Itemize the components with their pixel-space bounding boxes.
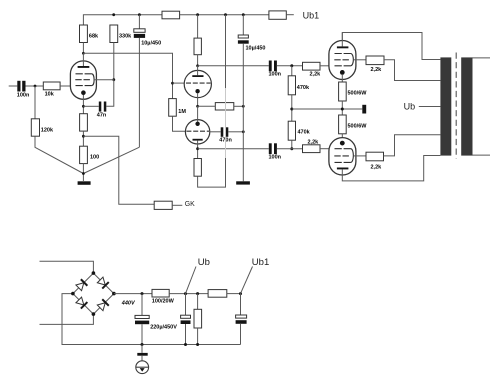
svg-text:47n: 47n: [97, 113, 107, 119]
resistor 2,2k upper grid: [303, 62, 321, 70]
svg-text:2,2k: 2,2k: [371, 165, 383, 171]
resistor 500/6W upper: [339, 82, 347, 101]
wire rail segment 2: [180, 14, 269, 16]
svg-text:470k: 470k: [298, 129, 311, 135]
tube V3 anode bar: [337, 46, 349, 48]
wire DC rail to R1: [114, 293, 152, 295]
svg-text:GK: GK: [185, 201, 195, 208]
tube V2a grid dashes: [186, 82, 211, 84]
tube V4 cathode dot: [340, 141, 345, 146]
wire R2 to node: [227, 293, 241, 295]
svg-text:Ub: Ub: [404, 102, 416, 112]
tube V4 envelope: [329, 138, 356, 175]
svg-text:440V: 440V: [121, 301, 136, 307]
svg-text:2,2k: 2,2k: [310, 71, 322, 77]
node lower coupling: [196, 147, 199, 150]
tube V4 anode bar: [337, 168, 349, 170]
wire to upper grid node: [277, 65, 303, 67]
wire 470n right lead: [228, 131, 243, 133]
node mid rail left: [290, 108, 293, 111]
ground stub 2 psu: [141, 356, 143, 361]
node tail junction: [196, 105, 199, 108]
node input: [34, 85, 37, 88]
tube V3 g1 dashes: [335, 65, 352, 67]
capacitor 100n input: [17, 81, 20, 92]
svg-text:10µ/450: 10µ/450: [141, 41, 161, 47]
resistor 330k: [110, 25, 118, 43]
wire tail resistor right lead: [234, 105, 244, 107]
SECTION-SPLITTER: [169, 15, 269, 187]
wire Ub pointer: [186, 267, 197, 294]
wire lower stopper to tube: [320, 148, 334, 150]
wire 10k to grid: [60, 85, 70, 87]
tube V2a envelope: [184, 70, 211, 97]
svg-text:220µ/450V: 220µ/450V: [150, 324, 177, 330]
wire R1 to node: [169, 293, 208, 295]
wire rail tap faint: [225, 15, 227, 88]
tube V4 g1 dashes: [335, 148, 352, 150]
tube V2b anode lead: [197, 106, 199, 121]
earth arrow: [140, 368, 145, 372]
svg-text:100n: 100n: [269, 154, 282, 160]
node star ground: [82, 172, 85, 175]
resistor splitter anode load: [194, 38, 201, 55]
wire rail to anode resistor: [197, 15, 199, 38]
ground bar input stage: [78, 181, 91, 185]
wire 120k to ground diagonal: [35, 136, 83, 173]
node bridge bottom: [92, 312, 96, 316]
wire 1M to lower grid: [173, 116, 186, 131]
node anode EF86: [82, 52, 85, 55]
node rail bleeder: [196, 292, 199, 295]
resistor 2,2k screen upper: [366, 56, 384, 65]
tube V1 grid2 dashes: [75, 79, 90, 81]
wire Ub1 supply rail: [83, 15, 162, 25]
node splitter grid: [171, 82, 174, 85]
tube V1 cathode hook: [92, 74, 94, 86]
wire to Ub1 label: [286, 14, 294, 16]
wire secondary top: [473, 57, 491, 59]
node 470n ground rail: [242, 130, 245, 133]
resistor 2,2k lower grid: [303, 145, 321, 153]
wire tail lower to riser: [198, 158, 226, 187]
wire screen to UL tap lower: [384, 135, 441, 156]
wire cap to input node: [26, 85, 44, 87]
bridge edge bottom-left: [73, 294, 94, 315]
tube V4 g3 dashes: [335, 161, 352, 163]
resistor GK: [154, 201, 172, 209]
wire cap1 ground drop: [138, 38, 140, 147]
wire GK feedback: [83, 136, 154, 204]
svg-text:500/6W: 500/6W: [348, 123, 368, 129]
node minus cap2: [184, 343, 187, 346]
wire 100 to ground: [82, 164, 84, 181]
tube V2a anode lead: [197, 66, 199, 75]
tube V3 g3 dashes: [335, 53, 352, 55]
ground bar psu: [137, 353, 147, 356]
wire V3 g2 lead: [353, 59, 366, 61]
wire anode resistor to node: [197, 55, 199, 66]
tube V2a anode bar: [192, 75, 203, 77]
svg-text:500/6W: 500/6W: [348, 91, 368, 97]
resistor cathode upper: [80, 114, 88, 131]
resistor bleeder: [197, 294, 199, 310]
node g2 junction: [112, 78, 115, 81]
tube V3 cathode hook: [351, 54, 354, 66]
node bridge top: [92, 271, 96, 275]
SECTION-OUTPUT: [269, 33, 491, 181]
wire mid rail: [292, 108, 363, 110]
SECTION-AMP: [9, 10, 319, 209]
resistor 500/6W lower: [339, 115, 347, 134]
tube V4 cathode hook: [351, 149, 354, 163]
diode D2: [97, 277, 109, 289]
transformer primary winding: [440, 57, 451, 155]
wire 470k lower to node: [291, 140, 293, 149]
wire V4 g2 lead: [353, 155, 366, 157]
terminal bar mid rail: [362, 105, 366, 114]
node rail cap2psu: [184, 292, 187, 295]
svg-text:100/20W: 100/20W: [152, 299, 175, 305]
capacitor 220u450V: [141, 294, 143, 316]
wire upper coupling: [198, 65, 269, 67]
ground stub psu: [141, 345, 143, 353]
wire g2 node down to 47n: [106, 80, 113, 107]
node rail-cap1: [138, 13, 141, 16]
node splitter anode: [196, 64, 199, 67]
resistor 10k: [43, 82, 60, 90]
svg-text:100n: 100n: [269, 72, 282, 78]
resistor tail horizontal: [215, 103, 234, 110]
node rail-cap2: [242, 13, 245, 16]
svg-text:2,2k: 2,2k: [371, 67, 383, 73]
bridge edge top-left: [73, 273, 94, 294]
tube V1 anode: [82, 53, 84, 66]
capacitor 47n: [99, 102, 102, 112]
tube V3 anode lead: [341, 33, 343, 47]
wire GK lead: [172, 204, 182, 206]
node upper grid: [290, 64, 293, 67]
wire 330k to g2 node: [113, 43, 115, 80]
SECTION-PSU: [40, 257, 270, 374]
earth circle: [136, 361, 149, 374]
tube V1 grid1 dashes: [76, 85, 93, 87]
capacitor psu 3: [240, 294, 242, 315]
resistor 1M: [169, 99, 177, 117]
resistor rail series 1: [162, 11, 180, 19]
wire grid stopper to tube: [320, 65, 334, 67]
capacitor psu 2: [185, 294, 187, 316]
svg-text:Ub1: Ub1: [252, 257, 269, 268]
wire Ub tap: [419, 106, 441, 108]
node rail Ub1: [239, 292, 242, 295]
resistor rail series 2: [269, 11, 286, 19]
svg-text:Ub1: Ub1: [303, 10, 320, 20]
wire secondary bottom: [473, 154, 491, 156]
tube V4 g2 dashes: [334, 155, 349, 157]
node rail-anode-resistor: [196, 13, 199, 16]
svg-text:Ub: Ub: [198, 257, 210, 268]
resistor 68k: [80, 25, 88, 43]
wire screen to UL tap upper: [384, 60, 440, 81]
tube V1 grid3 dashes: [76, 73, 93, 75]
bridge edge bottom-right: [93, 294, 114, 315]
resistor 100/20W: [152, 289, 169, 297]
node bridge left: [71, 292, 75, 296]
resistor 100: [80, 146, 88, 163]
node minus cap220: [141, 343, 144, 346]
wire cap2 ground drop: [242, 44, 244, 182]
wire 500 upper to mid rail: [341, 101, 343, 115]
svg-text:330k: 330k: [119, 34, 132, 40]
wire g2 lead: [94, 79, 114, 81]
tube V3 envelope: [329, 41, 356, 80]
wire grid lead upper triode: [173, 82, 186, 84]
tube V3 g2 dashes: [334, 59, 349, 61]
node mid rail right: [341, 108, 344, 111]
transformer secondary winding: [461, 57, 472, 155]
diode D4: [75, 297, 87, 309]
tube V2a cathode dot: [195, 89, 199, 93]
ground bar splitter: [236, 181, 250, 184]
svg-text:2,2k: 2,2k: [308, 139, 320, 145]
wire V4 anode to transformer: [342, 156, 440, 181]
svg-text:10µ/450: 10µ/450: [246, 45, 266, 51]
transformer core: [455, 53, 457, 159]
earth chord: [136, 366, 149, 368]
node rail cap220: [141, 292, 144, 295]
wire cathode to 47n: [83, 105, 98, 107]
tube V2b cathode bar: [193, 139, 203, 141]
wire AC input bottom: [40, 314, 94, 324]
tube V2b envelope: [185, 120, 209, 144]
wire cap1 ground diagonal: [83, 147, 139, 173]
svg-text:470k: 470k: [297, 85, 310, 91]
wire V3 cathode to 500: [341, 75, 343, 82]
wire tail resistor left lead: [198, 105, 216, 107]
wire faint riser: [225, 88, 227, 158]
wire 500 lower to V4 cathode: [341, 134, 343, 141]
wire lower cap to grid node: [277, 148, 303, 150]
resistor 120k: [34, 86, 36, 119]
wire 470n left lead: [210, 131, 221, 133]
tube V2b grid dashes: [186, 130, 209, 132]
wire anode to splitter grid: [83, 53, 172, 98]
node bridge right: [112, 292, 116, 296]
svg-text:10k: 10k: [45, 91, 55, 97]
node cathode: [82, 105, 85, 108]
node lower grid: [290, 147, 293, 150]
capacitor 10u450 second: [242, 15, 244, 35]
tube V3 cathode dot: [340, 70, 345, 75]
resistor tail lower: [194, 159, 201, 177]
capacitor 470n: [221, 127, 224, 137]
diode D3: [97, 299, 109, 311]
capacitor 10u450 first: [138, 15, 140, 29]
wire input: [9, 85, 18, 87]
wire cathode down: [82, 95, 84, 114]
node GK tap: [82, 135, 85, 138]
resistor series psu 2: [208, 290, 227, 298]
svg-text:100: 100: [90, 155, 99, 161]
bridge edge top-right: [93, 273, 114, 294]
resistor 470k upper: [291, 66, 293, 76]
wire minus from bridge: [62, 294, 241, 345]
wire Ub1 pointer: [241, 267, 253, 294]
tube V2b anode dot: [195, 122, 199, 126]
wire 470k upper to mid rail: [291, 95, 293, 121]
wire V2b cathode down: [197, 141, 199, 159]
wire 68k to anode node: [82, 43, 84, 54]
node tail to ground rail: [242, 105, 245, 108]
wire AC input top: [40, 261, 94, 273]
node minus bleeder: [196, 343, 199, 346]
tube V1 EF86 envelope: [70, 61, 96, 99]
wire V3 anode to transformer: [342, 33, 440, 60]
tube V1 cathode dot: [81, 90, 86, 95]
diode D1: [75, 279, 87, 291]
wire V2a cathode down: [197, 93, 199, 106]
capacitor 100n lower coupling: [269, 143, 272, 154]
wire lower coupling: [198, 148, 269, 150]
svg-text:68k: 68k: [89, 34, 99, 40]
svg-text:100n: 100n: [17, 92, 30, 98]
svg-text:1M: 1M: [178, 109, 186, 115]
node rail-faint-line: [224, 13, 227, 16]
node rail-330k: [112, 13, 115, 16]
wire to GK node: [82, 131, 84, 146]
resistor 2,2k screen lower: [366, 152, 384, 161]
capacitor 100n upper coupling: [269, 61, 272, 72]
svg-text:120k: 120k: [41, 127, 54, 133]
resistor 470k lower: [288, 121, 295, 140]
